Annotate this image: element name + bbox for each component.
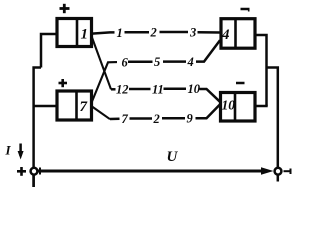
minus sign at right terminal	[284, 169, 292, 175]
svg-text:1: 1	[81, 27, 89, 43]
wire row 4 segment a	[110, 118, 120, 121]
svg-text:10: 10	[222, 98, 236, 113]
plus sign at left terminal	[17, 167, 26, 176]
minus sign above block 10	[236, 82, 245, 85]
svg-text:10: 10	[188, 82, 201, 96]
svg-text:5: 5	[154, 55, 160, 69]
plus sign above block 1	[60, 4, 70, 13]
svg-text:4: 4	[221, 27, 230, 43]
arrowhead of U wire	[261, 167, 274, 175]
wire from left bus to block 1 input	[41, 34, 56, 68]
svg-text:U: U	[167, 149, 179, 165]
wire row 1 segment b	[125, 31, 150, 34]
svg-text:3: 3	[189, 25, 196, 39]
svg-text:11: 11	[152, 82, 164, 96]
block 4 (top-right, label 4)	[221, 19, 255, 49]
wire from block 10 output joining right bus	[256, 105, 268, 108]
wire row 4 segment d diagonal up into block 10	[196, 104, 221, 118]
wire row 2 segment d diagonal up into block 4	[196, 40, 220, 61]
svg-text:2: 2	[153, 112, 160, 126]
svg-text:7: 7	[80, 99, 88, 115]
diagonal wire from block 1 down to row 3	[92, 38, 111, 90]
diagonal wire from block 7 up to row 2	[92, 62, 117, 101]
wire jog on left bus	[34, 68, 41, 107]
svg-text:9: 9	[187, 112, 194, 126]
minus terminal (right)	[275, 168, 282, 182]
wire row 3 segment d diagonal down into block 10	[200, 89, 221, 102]
wire row 2 segment b	[128, 61, 153, 64]
svg-text:6: 6	[122, 55, 129, 69]
svg-text:4: 4	[187, 55, 194, 69]
block 7 (bottom-left, label 7)	[57, 91, 92, 120]
wire branch from right bus to minus terminal drop	[267, 68, 278, 169]
bottom wire U with arrowhead	[38, 168, 267, 175]
block 10 (bottom-right, label 10)	[221, 93, 256, 122]
svg-text:7: 7	[122, 112, 129, 126]
wire row 1 segment c	[160, 31, 189, 34]
svg-text:1: 1	[117, 26, 123, 40]
svg-text:12: 12	[116, 83, 129, 97]
wire row 3 segment c	[164, 88, 187, 91]
svg-text:I: I	[5, 143, 12, 158]
wire row 3 segment a	[111, 88, 116, 91]
wire row 2 segment c	[163, 60, 186, 63]
minus sign above block 4	[241, 8, 250, 12]
left bus down to plus terminal	[32, 106, 35, 187]
wire from block 4 output to right bus	[256, 35, 267, 106]
wire row 4 segment b	[130, 117, 153, 120]
diagonal wire from block 7 down to row 4	[92, 107, 110, 120]
plus sign above block 7	[59, 79, 68, 87]
wire row 1 segment d into block 4	[198, 31, 221, 34]
wire from left bus to block 7 input	[34, 105, 56, 108]
current arrow down	[18, 144, 24, 160]
plus terminal (left)	[31, 168, 38, 187]
wire row 3 segment b	[129, 88, 151, 91]
block 1 (top-left, label 1)	[57, 19, 92, 47]
wire row 1 segment a	[92, 32, 115, 33]
wire row 4 segment c	[162, 117, 185, 120]
svg-text:2: 2	[150, 26, 157, 40]
